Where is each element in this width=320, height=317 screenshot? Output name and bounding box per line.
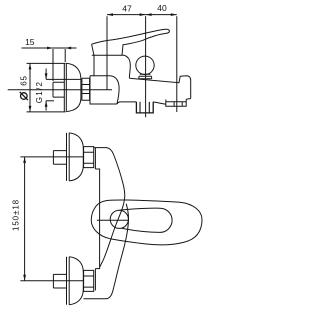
bottom escutcheon face	[67, 257, 70, 305]
lever edge-on curve (A)	[94, 148, 125, 267]
dim G1/2 text	[35, 81, 44, 104]
svg-text:G1/2: G1/2	[35, 81, 44, 104]
ext line Ø65 top	[27, 62, 66, 64]
body bar left edge	[95, 169, 99, 269]
arrow Ø65 top	[29, 63, 32, 69]
arrow G1/2 upper (pointing down)	[45, 73, 48, 79]
arrow left 47	[107, 13, 113, 16]
arrow 150 top	[23, 157, 26, 163]
shower hose nut	[136, 102, 153, 113]
wall pipe stub G1/2	[53, 82, 64, 97]
handle cap	[92, 44, 124, 55]
centerline of wall connection	[8, 89, 112, 91]
ext line x=53 (wall plane)	[52, 49, 54, 81]
svg-text:65: 65	[19, 75, 28, 86]
diverter knob from above	[110, 210, 128, 228]
arrow right 40	[171, 13, 177, 16]
arrow mid right-tip	[140, 13, 146, 16]
svg-text:40: 40	[157, 3, 167, 13]
shower nut facets	[140, 102, 149, 113]
arrow mid left-tip	[146, 13, 152, 16]
dim line Ø65 vertical	[29, 63, 31, 112]
bottom wall pipe stub	[53, 274, 66, 288]
dim text 40	[157, 3, 167, 13]
top hex nut	[84, 147, 94, 168]
ext line x=107	[106, 16, 108, 89]
ext line G1/2 top	[46, 78, 82, 80]
ext line G1/2 bottom	[46, 100, 54, 102]
arrow 15 left (outside, pointing right)	[47, 47, 53, 50]
diverter knob	[136, 56, 154, 74]
lever paddle outline (egg)	[91, 200, 202, 245]
svg-text:150±18: 150±18	[11, 199, 20, 231]
spout top edge	[129, 76, 190, 99]
neck to diverter	[124, 55, 130, 78]
bottom escutcheon dome	[69, 257, 83, 305]
ext line x=65 (escutcheon face)	[64, 49, 66, 62]
dim line G1/2 lower	[45, 101, 47, 111]
arrow G1/2 lower (pointing up)	[45, 101, 48, 107]
top body boss	[94, 148, 96, 169]
dim line G1/2 upper	[45, 69, 47, 80]
handle lever	[92, 29, 170, 55]
dim line 47/40	[107, 14, 177, 16]
svg-text:47: 47	[122, 4, 132, 14]
dim text 47	[122, 4, 132, 14]
bottom hex nut	[84, 270, 94, 291]
body stadium from above	[120, 208, 173, 232]
spout underside	[153, 102, 166, 104]
escutcheon dome	[66, 63, 81, 111]
top wall pipe stub	[53, 151, 66, 165]
dim line 15	[22, 47, 77, 49]
dim line 150	[24, 157, 26, 281]
svg-text:15: 15	[25, 37, 35, 47]
arrow 150 bottom	[23, 275, 26, 281]
centerline bottom figure	[97, 219, 129, 221]
dim text 15	[25, 37, 35, 47]
far lever edge curve (B)	[84, 204, 129, 299]
dim Ø65 text	[19, 75, 28, 86]
ext line x=176.8	[176, 16, 178, 112]
dim Ø symbol	[20, 92, 28, 100]
body lower block	[90, 76, 136, 104]
arrow Ø65 bottom	[29, 106, 32, 112]
spout end bottom / aerator	[166, 99, 191, 107]
bottom body boss	[94, 269, 96, 291]
ext line top inlet center	[20, 156, 84, 158]
top escutcheon face	[67, 133, 70, 181]
knob base	[139, 74, 152, 79]
ext line Ø65 bottom	[27, 111, 66, 113]
escutcheon face (double line)	[64, 63, 66, 111]
upper body left edge	[93, 55, 95, 76]
ext line x=145.6	[145, 16, 147, 117]
top escutcheon dome	[69, 133, 83, 181]
hex nut of union	[82, 78, 90, 100]
ext line bottom inlet center	[20, 280, 84, 282]
dim text 150±18	[11, 199, 20, 231]
arrow 15 right (outside, pointing left)	[65, 47, 71, 50]
